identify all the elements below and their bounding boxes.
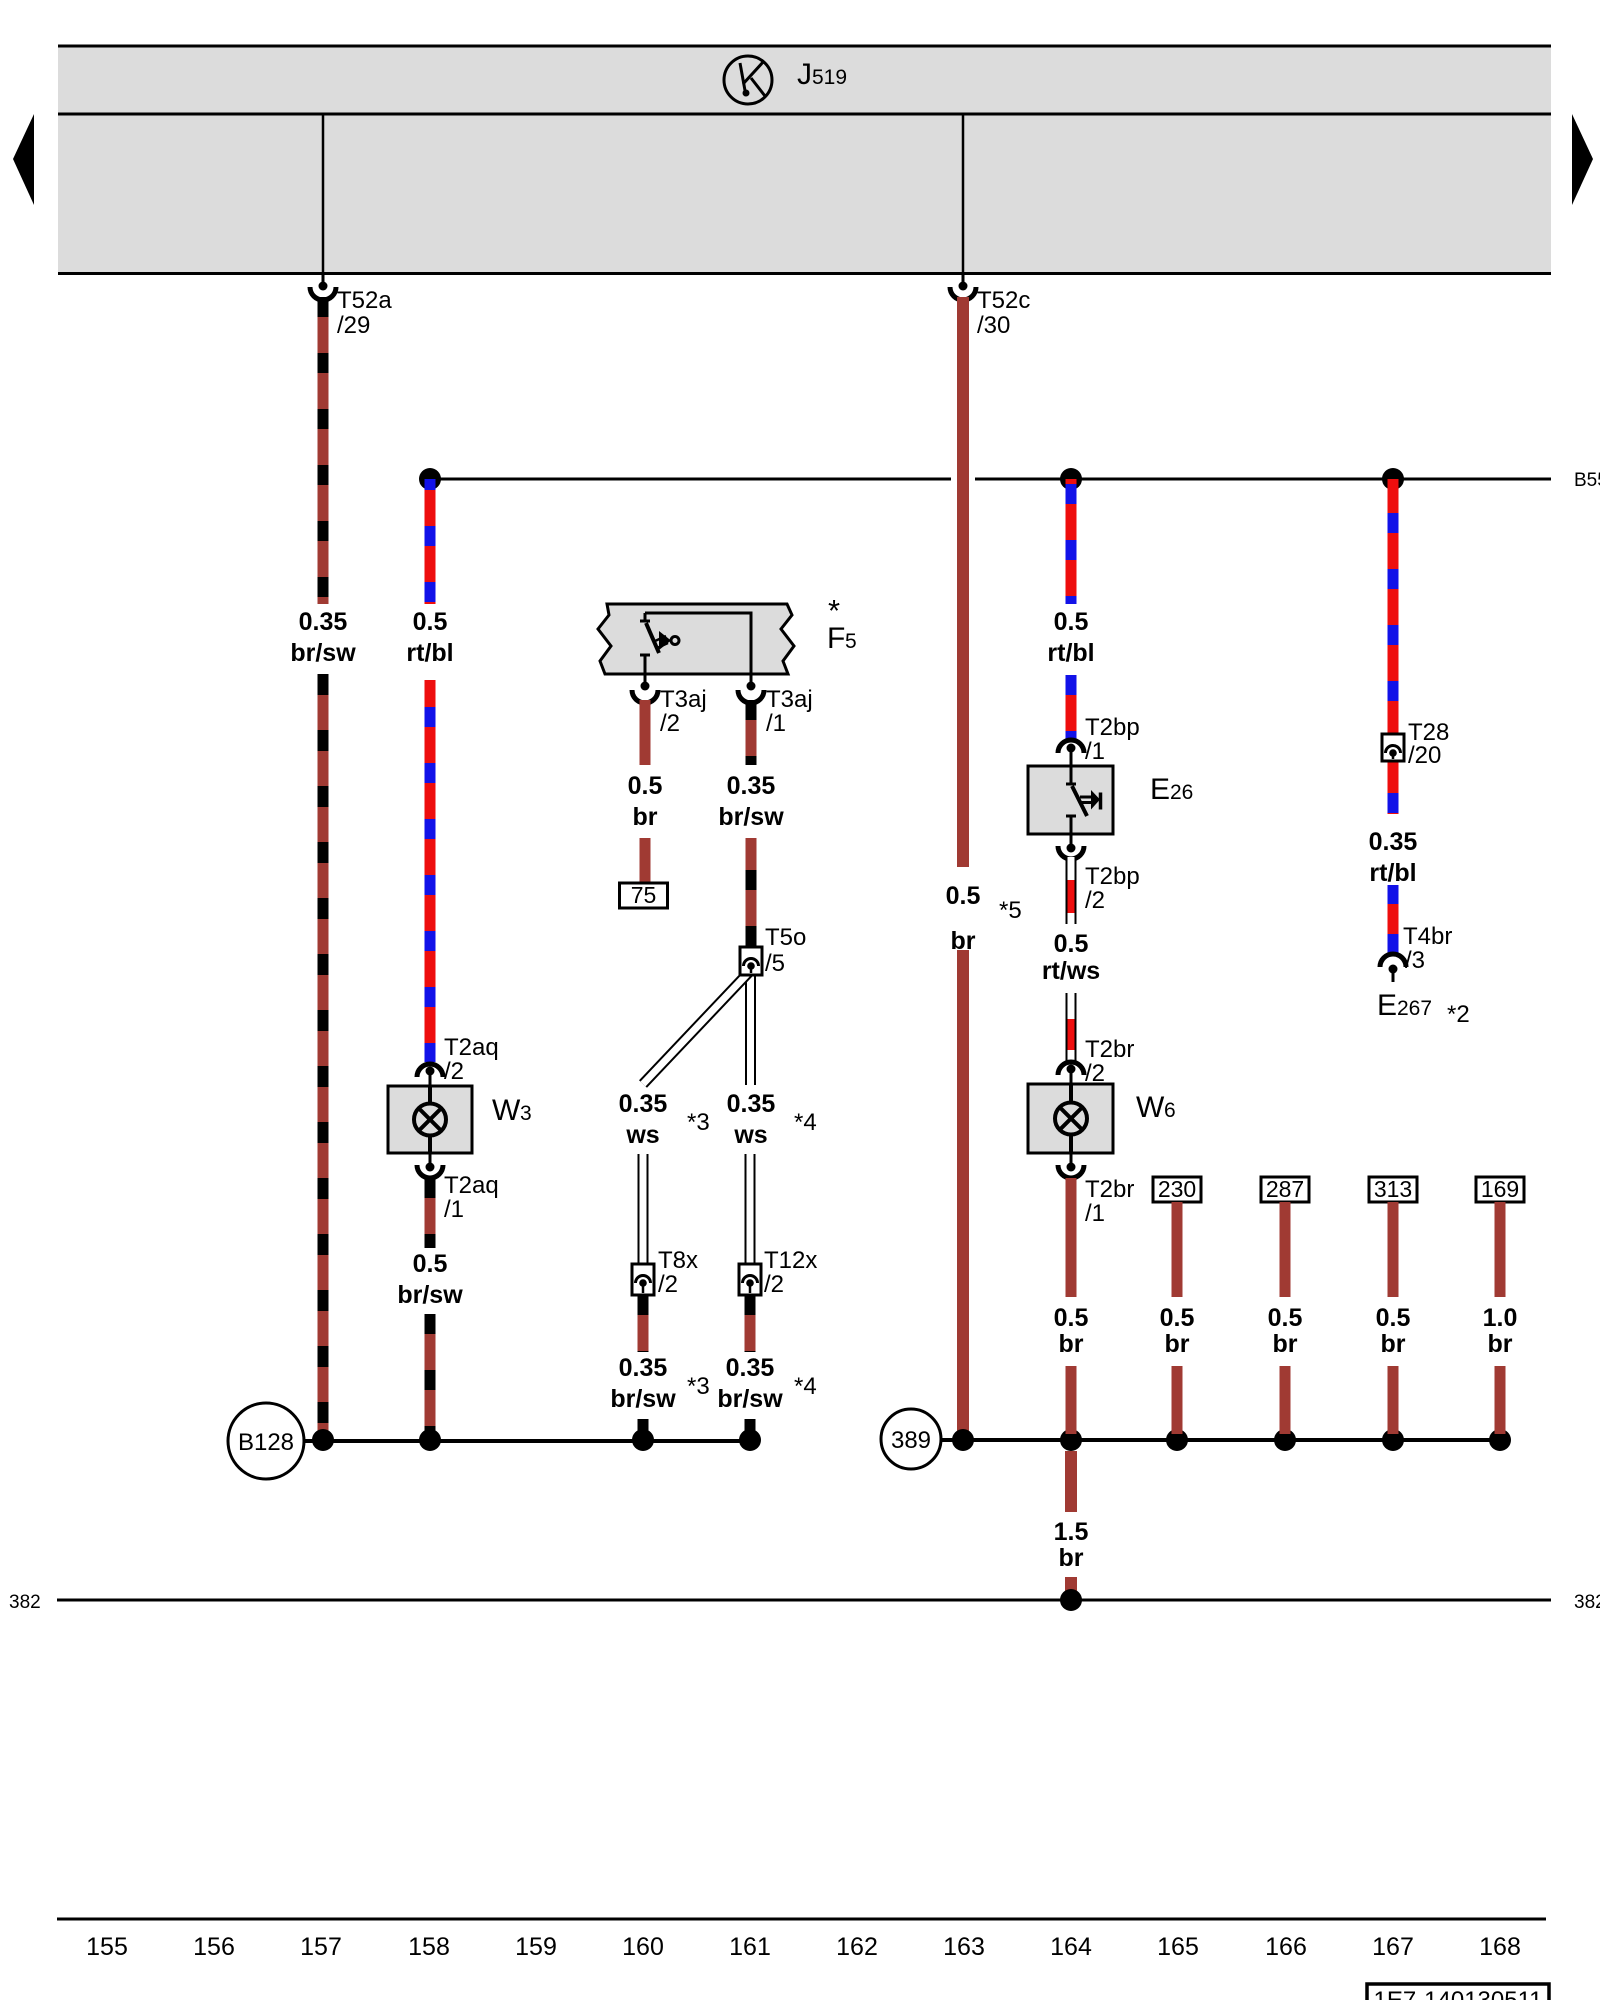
svg-text:J: J [797, 58, 812, 91]
band bottom border [58, 272, 1551, 275]
connector T2aq/2 pin [426, 1067, 435, 1087]
svg-text:0.35: 0.35 [619, 1090, 668, 1118]
svg-text:168: 168 [1479, 1933, 1521, 1961]
connector T12x/2 [739, 1264, 761, 1295]
svg-text:*2: *2 [1447, 1001, 1470, 1028]
W3 lamp symbol [414, 1104, 446, 1136]
svg-text:163: 163 [943, 1933, 985, 1961]
svg-text:0.5: 0.5 [1376, 1304, 1411, 1332]
svg-text:382: 382 [1574, 1592, 1600, 1613]
wire 0.5 br lower (col 160) [640, 838, 651, 884]
wire 0.5 br upper (col 313) [1388, 1202, 1399, 1297]
svg-text:ws: ws [625, 1121, 659, 1149]
band top border [58, 45, 1551, 48]
svg-text:1E7-140130511: 1E7-140130511 [1373, 1987, 1542, 2000]
svg-text:/2: /2 [660, 710, 680, 737]
svg-text:0.5: 0.5 [1054, 1304, 1089, 1332]
wire 0.5 rt/bl lower segment (col 158) [425, 680, 436, 1062]
svg-text:br: br [1059, 1544, 1084, 1572]
svg-text:75: 75 [631, 882, 657, 908]
page-right arrow [1572, 114, 1593, 205]
svg-text:1.5: 1.5 [1054, 1518, 1089, 1546]
svg-text:/1: /1 [444, 1196, 464, 1223]
connector T4br/3 pin [1389, 965, 1398, 983]
svg-text:389: 389 [891, 1427, 931, 1454]
svg-text:B128: B128 [238, 1429, 294, 1456]
svg-text:T3aj: T3aj [660, 686, 707, 713]
svg-text:167: 167 [1372, 1933, 1414, 1961]
wire 0.35 br/sw lower segment (col 157) [318, 674, 329, 1434]
svg-text:br/sw: br/sw [717, 1385, 783, 1413]
terminal box 287 [1261, 1176, 1309, 1202]
svg-text:T12x: T12x [764, 1247, 817, 1274]
ground node col 161 [739, 1429, 761, 1451]
connector T8x/2 [632, 1264, 654, 1295]
connector T2aq/1 cup [417, 1165, 443, 1178]
svg-text:T2aq: T2aq [444, 1034, 499, 1061]
svg-text:T4br: T4br [1403, 923, 1452, 950]
svg-text:/1: /1 [766, 710, 786, 737]
ground bus line (389) [941, 1438, 1500, 1442]
control unit J519 band (gray bus bar) [58, 45, 1551, 274]
wire 0.5 br below W6 upper [1066, 1178, 1077, 1297]
connector T52c/30 pin [959, 274, 968, 291]
node on B559 at col 167 [1382, 468, 1404, 490]
wire 1.0 br upper (col 169) [1495, 1202, 1506, 1297]
wire 0.5 br lower (col 163) [957, 950, 969, 1434]
connector T4br/3 cup [1380, 954, 1406, 967]
wire 0.35 rt/bl upper (col 167) [1388, 479, 1399, 814]
svg-text:0.5: 0.5 [1054, 930, 1089, 958]
svg-text:/2: /2 [658, 1271, 678, 1298]
wire 1.5 br upper [1065, 1451, 1077, 1512]
F5 upper contact tick [640, 620, 650, 623]
svg-text:rt/bl: rt/bl [1047, 639, 1094, 667]
svg-text:0.5: 0.5 [413, 608, 448, 636]
svg-text:br/sw: br/sw [610, 1385, 676, 1413]
W6 lamp symbol [1055, 1103, 1087, 1135]
svg-text:3: 3 [520, 1102, 532, 1125]
E26 actuator arrow [1091, 790, 1100, 810]
svg-text:165: 165 [1157, 1933, 1199, 1961]
F5 lower contact tick [640, 654, 650, 657]
label J519 [797, 58, 847, 91]
svg-text:rt/bl: rt/bl [1369, 859, 1416, 887]
wire 0.35 br/sw below T8x [638, 1295, 649, 1352]
E26 upper lead [1070, 766, 1073, 783]
svg-text:*4: *4 [794, 1109, 817, 1136]
ground node col 164 [1060, 1429, 1082, 1451]
svg-text:164: 164 [1050, 1933, 1092, 1961]
sheet number box [1367, 1984, 1549, 2000]
connector T2br/2 cup [1058, 1062, 1084, 1075]
ground node col 163 [952, 1429, 974, 1451]
svg-text:0.35: 0.35 [299, 608, 348, 636]
wire 0.5 br/sw below W3 upper [425, 1178, 436, 1248]
connector T3aj/2 cup [632, 690, 658, 703]
svg-text:/2: /2 [764, 1271, 784, 1298]
lamp W3 box [388, 1086, 472, 1153]
svg-text:T8x: T8x [658, 1247, 698, 1274]
svg-text:/2: /2 [444, 1058, 464, 1085]
svg-text:162: 162 [836, 1933, 878, 1961]
ground node col 157 [312, 1429, 334, 1451]
E26 actuator bar [1099, 793, 1103, 810]
svg-text:157: 157 [300, 1933, 342, 1961]
svg-text:0.35: 0.35 [727, 1090, 776, 1118]
wire 0.5 br below W6 lower [1066, 1366, 1077, 1434]
connector T2aq/2 cup [417, 1064, 443, 1077]
F5 actuator double line [655, 636, 668, 648]
ground node col 158 [419, 1429, 441, 1451]
E26 actuator double line [1080, 797, 1091, 803]
ruler line [57, 1918, 1546, 1921]
wire 0.5 br lower (col 287) [1280, 1366, 1291, 1434]
label W6 [1136, 1091, 1176, 1124]
lamp W6 box [1028, 1084, 1113, 1153]
F5 internal wire top [645, 612, 751, 615]
label E26 [1150, 773, 1193, 806]
svg-text:313: 313 [1374, 1176, 1412, 1202]
svg-text:267: 267 [1397, 997, 1432, 1020]
page-left arrow [13, 114, 34, 205]
wire 0.35 ws diagonal drop (to col 160) [643, 970, 751, 1084]
svg-text:/5: /5 [765, 950, 785, 977]
svg-text:6: 6 [1164, 1099, 1176, 1122]
svg-text:rt/bl: rt/bl [406, 639, 453, 667]
connector T5o/5 [740, 947, 762, 975]
svg-text:T3aj: T3aj [766, 686, 813, 713]
svg-text:ws: ws [733, 1121, 767, 1149]
wire 0.35 br/sw below T12x [745, 1295, 756, 1352]
E26 lower lead [1070, 817, 1073, 834]
connector T2bp/1 cup [1058, 740, 1084, 753]
connector T52a/29 pin [319, 274, 328, 291]
svg-text:*5: *5 [999, 897, 1022, 924]
svg-text:230: 230 [1158, 1176, 1196, 1202]
svg-text:169: 169 [1481, 1176, 1519, 1202]
svg-text:/29: /29 [337, 312, 370, 339]
wire 0.5 rt/ws upper [1066, 857, 1077, 924]
svg-text:/1: /1 [1085, 1200, 1105, 1227]
svg-text:0.5: 0.5 [1054, 608, 1089, 636]
svg-text:0.35: 0.35 [727, 772, 776, 800]
node on B559 at col 158 [419, 468, 441, 490]
terminal box 75 [620, 882, 668, 908]
svg-text:E: E [1150, 773, 1170, 806]
connector T52a/29 cup [310, 287, 336, 300]
ground node col 160 [632, 1429, 654, 1451]
svg-text:br: br [1165, 1330, 1190, 1358]
connector T28/20 [1382, 734, 1404, 761]
connector T3aj/1 cup [738, 690, 764, 703]
svg-text:br/sw: br/sw [718, 803, 784, 831]
svg-text:br/sw: br/sw [397, 1281, 463, 1309]
F5 terminal 1 lead [750, 612, 753, 686]
svg-text:F: F [827, 622, 845, 655]
svg-text:160: 160 [622, 1933, 664, 1961]
svg-text:156: 156 [193, 1933, 235, 1961]
terminal box 230 [1153, 1176, 1201, 1202]
connector T2br/1 cup [1058, 1165, 1084, 1178]
ground node col 165 [1166, 1429, 1188, 1451]
svg-text:br/sw: br/sw [290, 639, 356, 667]
connector T2aq/1 pin [426, 1153, 435, 1172]
wire J519 to T52a (inside band) [322, 114, 325, 274]
ground stub T8x column [638, 1419, 649, 1434]
wire 0.5 br/sw below W3 lower [425, 1314, 436, 1434]
wire 0.5 rt/bl upper (col 164) [1066, 479, 1077, 604]
ground point 389 circle [881, 1409, 941, 1469]
svg-text:0.35: 0.35 [1369, 828, 1418, 856]
svg-text:0.5: 0.5 [413, 1250, 448, 1278]
ground stub T12x column [745, 1419, 756, 1434]
E26 switch arm [1072, 786, 1087, 816]
wire 0.5 rt/bl lower (col 164) [1066, 675, 1077, 741]
connector T52c/30 cup [950, 287, 976, 300]
svg-text:br: br [633, 803, 658, 831]
wire 0.5 br upper (col 160) [640, 700, 651, 765]
F5 contact ring [671, 637, 679, 645]
F5 lower contact lead [644, 656, 647, 685]
terminal box 313 [1369, 1176, 1417, 1202]
svg-text:B559: B559 [1574, 470, 1600, 491]
svg-text:rt/ws: rt/ws [1042, 957, 1100, 985]
connector T3aj/1 pin dot [747, 682, 756, 691]
svg-text:br: br [1381, 1330, 1406, 1358]
svg-text:W: W [1136, 1091, 1165, 1124]
band middle border [58, 113, 1551, 116]
wire 0.35 br/sw upper (col 161) [746, 700, 757, 765]
terminal box 169 [1476, 1176, 1524, 1202]
W3 internal lead top [428, 1086, 432, 1104]
svg-text:155: 155 [86, 1933, 128, 1961]
svg-text:161: 161 [729, 1933, 771, 1961]
svg-text:382: 382 [9, 1592, 41, 1613]
svg-text:br: br [1273, 1330, 1298, 1358]
J519 bus icon (circled K) [724, 56, 772, 104]
svg-text:E: E [1377, 989, 1397, 1022]
connector T2br/2 pin [1067, 1065, 1076, 1085]
W6 internal lead bottom [1069, 1134, 1073, 1153]
svg-text:br: br [1488, 1330, 1513, 1358]
svg-text:T52c: T52c [977, 287, 1030, 314]
svg-text:/2: /2 [1085, 887, 1105, 914]
wire 0.35 br/sw upper segment (col 157) [318, 297, 329, 604]
wire 0.5 rt/ws lower [1066, 993, 1077, 1061]
wire J519 to T52c (inside band) [962, 114, 965, 274]
label E267 [1377, 989, 1432, 1022]
label W3 [492, 1094, 532, 1127]
connector T2bp/2 pin [1067, 834, 1076, 853]
label F5 [827, 622, 857, 655]
svg-text:T52a: T52a [337, 287, 392, 314]
ground node col 166 [1274, 1429, 1296, 1451]
connection line B559 [430, 478, 1551, 481]
switch F5 torn band [598, 604, 794, 674]
svg-text:T2bp: T2bp [1085, 863, 1140, 890]
wire 0.35 ws lower (col 160) [638, 1154, 649, 1264]
svg-text:5: 5 [845, 630, 857, 653]
svg-text:T2br: T2br [1085, 1036, 1134, 1063]
node on B559 at col 164 [1060, 468, 1082, 490]
svg-text:*3: *3 [687, 1109, 710, 1136]
svg-text:0.5: 0.5 [1268, 1304, 1303, 1332]
connection line 382 [57, 1599, 1551, 1602]
wire 0.5 br upper (col 163) [957, 297, 969, 867]
ground node col 167 [1382, 1429, 1404, 1451]
svg-text:T2bp: T2bp [1085, 714, 1140, 741]
svg-text:*3: *3 [687, 1373, 710, 1400]
svg-text:0.35: 0.35 [726, 1354, 775, 1382]
wire 0.5 br lower (col 313) [1388, 1366, 1399, 1434]
wire 0.5 br upper (col 230) [1172, 1202, 1183, 1297]
wire 0.5 br upper (col 287) [1280, 1202, 1291, 1297]
wire 0.35 ws vertical drop (col 161) [745, 975, 756, 1085]
svg-text:/30: /30 [977, 312, 1010, 339]
svg-text:0.35: 0.35 [619, 1354, 668, 1382]
connector T3aj/2 pin dot [641, 682, 650, 691]
E26 lower tick [1066, 815, 1076, 818]
F5 switch arm [646, 623, 659, 653]
svg-text:158: 158 [408, 1933, 450, 1961]
svg-text:0.5: 0.5 [628, 772, 663, 800]
svg-text:/20: /20 [1408, 742, 1441, 769]
svg-text:1.0: 1.0 [1483, 1304, 1518, 1332]
svg-text:159: 159 [515, 1933, 557, 1961]
W6 internal lead top [1069, 1084, 1073, 1103]
wire 0.5 br lower (col 230) [1172, 1366, 1183, 1434]
switch E26 box [1028, 766, 1113, 834]
connector T2br/1 pin [1067, 1153, 1076, 1172]
ground bus line (B128) [304, 1439, 750, 1443]
svg-text:W: W [492, 1094, 521, 1127]
F5 upper contact stub [644, 613, 647, 620]
wire 0.35 ws lower (col 161) [745, 1154, 756, 1264]
svg-text:*4: *4 [794, 1373, 817, 1400]
svg-text:287: 287 [1266, 1176, 1304, 1202]
svg-text:26: 26 [1170, 781, 1193, 804]
svg-text:/1: /1 [1085, 738, 1105, 765]
svg-text:166: 166 [1265, 1933, 1307, 1961]
wire 1.5 br lower [1065, 1577, 1077, 1598]
wire 0.5 rt/bl upper segment (col 158) [425, 479, 436, 604]
svg-text:0.5: 0.5 [946, 882, 981, 910]
crossing gap at B559 line (col 163) [951, 471, 975, 487]
node on 382 [1060, 1589, 1082, 1611]
E26 upper tick [1066, 783, 1076, 786]
svg-text:T2aq: T2aq [444, 1172, 499, 1199]
svg-text:T2br: T2br [1085, 1176, 1134, 1203]
svg-text:br: br [1059, 1330, 1084, 1358]
svg-text:/3: /3 [1405, 947, 1425, 974]
W3 internal lead bottom [428, 1135, 432, 1153]
wire 0.35 rt/bl lower (col 167) [1388, 885, 1399, 955]
svg-text:T5o: T5o [765, 924, 806, 951]
svg-text:0.5: 0.5 [1160, 1304, 1195, 1332]
F5 actuator arrow [659, 631, 671, 650]
ground node col 168 [1489, 1429, 1511, 1451]
wire 1.0 br lower (col 169) [1495, 1366, 1506, 1434]
connector T2bp/1 pin [1067, 744, 1076, 767]
ground point B128 circle [228, 1403, 304, 1479]
wire 0.35 br/sw lower (col 161) [746, 838, 757, 947]
svg-text:519: 519 [812, 66, 847, 89]
connector T2bp/2 cup [1058, 846, 1084, 859]
